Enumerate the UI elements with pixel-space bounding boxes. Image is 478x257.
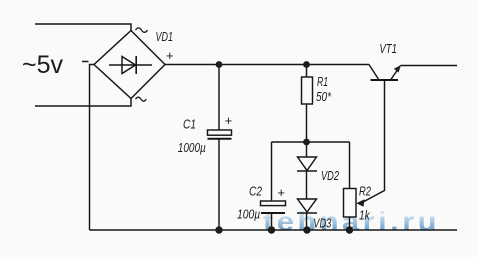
junction R1/VD2 branch	[303, 139, 310, 146]
wire between VD2 and VD3	[306, 171, 308, 199]
svg-text:R2: R2	[359, 185, 371, 199]
VT1 emitter arrowhead	[394, 65, 401, 72]
AC tilde bottom	[136, 97, 147, 101]
svg-text:+: +	[166, 48, 174, 63]
diode inside bridge	[109, 64, 152, 66]
minus terminal	[82, 61, 89, 63]
diode VD3	[298, 199, 317, 212]
resistor R1	[306, 65, 308, 78]
svg-text:VT1: VT1	[379, 42, 397, 56]
wire bottom rail	[90, 229, 458, 231]
junction bottom C2	[268, 226, 275, 233]
svg-text:C1: C1	[183, 117, 196, 131]
svg-text:1000µ: 1000µ	[178, 141, 206, 155]
junction bottom R2	[346, 226, 353, 233]
svg-text:VD3: VD3	[313, 216, 331, 230]
junction bottom C1	[215, 226, 222, 233]
wire top AC input	[35, 24, 131, 31]
svg-text:1k: 1k	[359, 209, 370, 223]
svg-text:R1: R1	[317, 75, 328, 89]
wire minus output to bottom-left rail	[90, 65, 95, 231]
AC tilde top	[136, 28, 148, 32]
junction bottom VD3	[303, 226, 310, 233]
svg-text:VD2: VD2	[321, 169, 339, 183]
wire branch horizontal	[272, 141, 350, 143]
svg-text:+: +	[225, 113, 233, 128]
svg-text:50*: 50*	[316, 90, 332, 104]
capacitor C1	[218, 65, 220, 131]
wire emitter output	[401, 65, 458, 67]
junction on rail at R1	[303, 61, 310, 68]
svg-text:VD1: VD1	[156, 30, 174, 44]
diode VD2	[306, 142, 308, 157]
bridge rectifier VD1 diamond	[94, 31, 165, 99]
svg-text:C2: C2	[249, 184, 262, 198]
transistor VT1	[371, 79, 399, 81]
svg-text:~5v: ~5v	[22, 51, 64, 79]
wire main positive rail	[165, 64, 369, 66]
wire R2 wiper to VT1 base	[362, 80, 385, 203]
potentiometer R2	[349, 142, 351, 189]
R2 wiper arrowhead	[356, 199, 364, 207]
svg-text:+: +	[277, 185, 285, 200]
svg-text:100µ: 100µ	[237, 207, 260, 221]
wire bottom AC input	[35, 98, 131, 106]
capacitor C2	[271, 142, 273, 201]
junction on rail at C1	[216, 61, 223, 68]
